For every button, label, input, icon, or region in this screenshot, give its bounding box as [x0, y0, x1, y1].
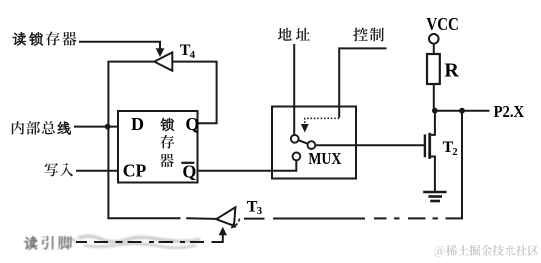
svg-text:2: 2 [452, 147, 457, 158]
label 器 (latch box) [160, 154, 174, 167]
resistor R [427, 54, 440, 84]
ground bar 1 [423, 191, 446, 194]
transistor T2 source lead [430, 157, 435, 192]
wire: pin node down to read-pin line [461, 111, 463, 219]
wire: output node line to P2.X [434, 110, 490, 112]
label 存 (latch box) [160, 135, 174, 149]
wire segment: bottom bus continues to T3 apex [186, 217, 216, 220]
arrowhead into T3 bottom [219, 227, 227, 235]
dotted control path inside MUX [305, 118, 339, 123]
tri-state buffer T3 (triangle) [216, 207, 235, 226]
switch contact circle (Q-bar side) [293, 153, 301, 161]
label 读锁存器 (read latch) [13, 32, 77, 46]
dash-dot wire: T3 input from P2.X pin line [244, 217, 463, 219]
watermark @稀土掘金技术社区 [435, 245, 539, 257]
svg-text:R: R [444, 60, 459, 82]
wire: VCC to resistor [433, 44, 435, 54]
wire: MUX output to T2 gate [311, 144, 423, 146]
transistor T2 gate bar [424, 134, 426, 157]
transistor T2 channel bar [428, 133, 431, 159]
ground bar 3 [430, 200, 440, 203]
transistor T2 drain lead [430, 111, 435, 135]
label 锁 (latch box) [161, 118, 174, 131]
svg-text:3: 3 [257, 205, 263, 217]
wire: internal bus to D input [74, 126, 119, 128]
wire: T4 output down the bus and along bottom to T3 [108, 62, 180, 219]
svg-text:MUX: MUX [308, 149, 342, 168]
wire: read-pin line corner up to T3 control arrow [217, 234, 223, 242]
wire: read-latch lead to T4 control [79, 42, 160, 50]
wire: write to CP input [76, 170, 119, 172]
dash-dot wire: read-pin control line [76, 241, 217, 243]
label 写入 (write) [45, 163, 74, 176]
tri-state buffer T4 (triangle) [154, 52, 172, 70]
junction dot at pin node [459, 108, 465, 114]
latch box [118, 111, 198, 183]
MUX box [272, 107, 356, 179]
junction dot at drain node [432, 108, 438, 114]
wire: Q output up to T4 input [172, 62, 217, 124]
smudge artifact over read-pin line [60, 236, 200, 248]
svg-text:Q: Q [182, 161, 196, 181]
wire: address line down into MUX [293, 44, 295, 135]
switch wiper circle [308, 141, 316, 149]
svg-text:P2.X: P2.X [494, 102, 525, 121]
label 读引脚 (read pin) [24, 236, 72, 250]
junction dot on internal bus [105, 124, 111, 130]
arrowhead into T4 top [156, 48, 165, 57]
wire: resistor to drain node [433, 84, 435, 111]
wire: Q-bar output to MUX bottom contact [198, 160, 297, 171]
label 控制 (control) [353, 28, 384, 42]
svg-text:CP: CP [123, 161, 147, 181]
switch contact circle (address side) [291, 135, 299, 143]
arrowhead of control onto switch wiper [301, 124, 309, 133]
label 地址 (address) [278, 28, 310, 41]
wire: control lead into MUX [339, 48, 386, 117]
switch wiper line [295, 139, 312, 145]
ground bar 2 [428, 195, 442, 198]
label 内部总线 (internal bus) [12, 121, 71, 135]
VCC terminal circle [429, 34, 439, 44]
svg-text:D: D [131, 114, 144, 134]
svg-text:4: 4 [190, 49, 196, 61]
svg-text:Q: Q [185, 114, 199, 134]
svg-text:VCC: VCC [426, 14, 459, 34]
small dashed arrow at T3 base [234, 219, 240, 227]
